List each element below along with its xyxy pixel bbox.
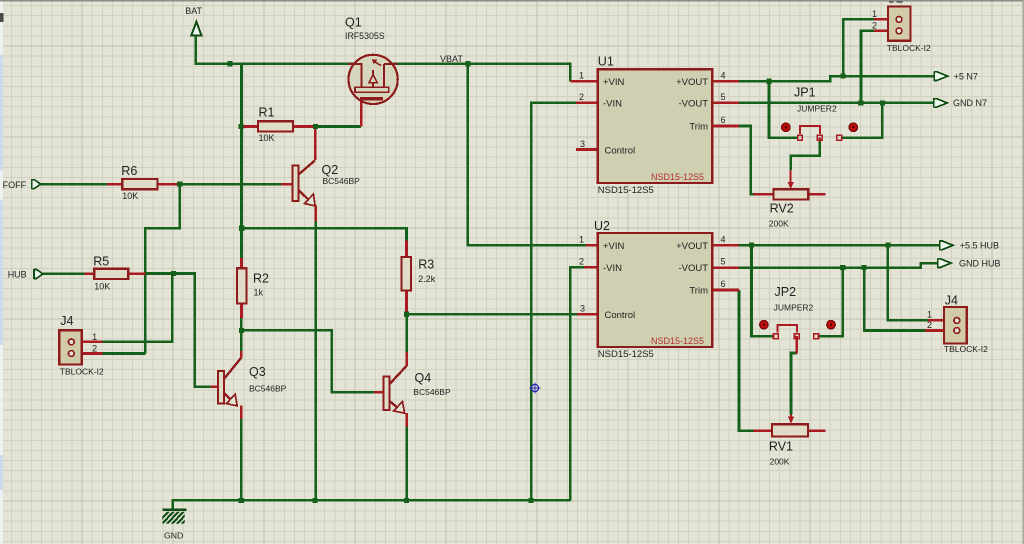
svg-text:2: 2 [872,20,877,30]
pin lead RV1 left [754,429,773,432]
jumper JP1 [782,123,858,140]
svg-text:1: 1 [579,70,584,80]
pin lead Q3 collector [240,351,243,358]
pin lead U1 pin1 [570,80,598,83]
output terminal GND HUB [938,258,952,267]
junction GND bus / Q3 emitter [239,498,244,503]
svg-text:Trim: Trim [689,122,708,133]
svg-text:R3: R3 [418,258,434,272]
wire Q1 gate/drain node to R1-Q2 junction [316,125,362,128]
svg-text:5: 5 [720,256,725,266]
svg-text:1: 1 [92,332,97,342]
wire R3 junction down to Q4 collector [405,314,408,353]
svg-text:HUB: HUB [8,270,27,280]
svg-text:Control: Control [605,310,636,321]
op-amp/converter U1 (NSD15-12S5) [598,69,713,183]
junction R6 right / FOFF branch [177,182,182,187]
wire U1 pin2 -VIN down to GND bus [531,103,576,501]
pin lead R3 top [405,241,408,257]
svg-text:Q2: Q2 [322,163,339,177]
svg-text:+VOUT: +VOUT [676,241,708,252]
connector J4 (TBLOCK-I2, left) [59,330,82,364]
wire JP1 pin1 up to +5 rail [769,81,798,137]
junction +5.5 rail / JP2 pin1 [749,242,754,247]
junction R1 right / Q1 gate / Q2 collector [313,124,318,129]
svg-text:200K: 200K [769,219,789,229]
resistor R1 [258,121,293,131]
svg-text:RV2: RV2 [770,201,794,215]
svg-text:10K: 10K [94,282,110,292]
pin lead R1 right [293,125,316,128]
wire J4R pin2 to GND HUB rail [864,268,925,331]
pin lead R6 right [158,183,180,186]
resistor R6 [122,179,157,189]
svg-text:JUMPER2: JUMPER2 [797,104,837,114]
pin lead U2 pin5 [712,266,739,269]
pin lead R2 top [240,258,243,268]
wire U2 pin2 -VIN to GND bus [570,267,584,500]
svg-text:1k: 1k [254,288,264,298]
wire R2 bottom junction dogleg to Q4 base [241,317,374,392]
svg-text:Trim: Trim [689,286,708,297]
wire JP2 pin1 up to +5.5 rail [752,245,774,336]
label J3 (cut off at top) [889,0,894,3]
svg-text:1: 1 [872,9,877,19]
wire Q3 collector to R2 bottom junction [240,330,243,352]
svg-text:3: 3 [580,303,585,313]
junction GND HUB rail / J4R pin2 [862,265,867,270]
wire JP1 pin2 to RV2 wiper [791,141,820,170]
wire Q3 emitter to GND bus [240,418,243,500]
svg-text:NSD15-12S5: NSD15-12S5 [598,349,654,360]
svg-text:2: 2 [579,256,584,266]
pin lead RV2 left [754,193,774,196]
svg-text:BC546BP: BC546BP [413,387,451,397]
svg-text:2: 2 [579,92,584,102]
svg-text:1: 1 [579,234,584,244]
junction GND N7 rail / J3 pin2 [858,100,863,105]
svg-text:Q4: Q4 [415,371,432,385]
potentiometer RV1 (200K) [772,415,808,437]
svg-text:JP1: JP1 [794,86,816,100]
svg-text:-VOUT: -VOUT [678,98,708,109]
output terminal +5.5 HUB [940,241,954,250]
svg-text:10K: 10K [259,133,275,143]
svg-text:JP2: JP2 [775,285,797,299]
svg-text:GND N7: GND N7 [953,98,987,108]
svg-text:TBLOCK-I2: TBLOCK-I2 [887,43,931,53]
wire U2 pin4 +VOUT to +5.5 HUB terminal [739,244,940,247]
node sheet origin marker (blue crosshair) [530,383,541,394]
junction BAT rail [227,61,232,66]
pin lead R5 right [128,273,145,276]
junction GND bus / Q4 emitter [404,498,409,503]
wire U1 pin6 Trim to RV2 left [739,126,754,194]
pin lead J4R pin2 [925,329,954,332]
pin lead Q1 drain [360,100,363,126]
power terminal BAT [191,22,201,36]
resistor R5 [94,269,128,279]
transistor Q3 (BC546BP) [218,358,241,406]
wire GND bus [173,500,571,509]
pin lead R3 bottom [405,290,408,311]
wire JP1 pin3 up to GND N7 rail [842,103,883,138]
svg-text:+5 N7: +5 N7 [954,72,978,82]
wire JP2 pin3 up to GND HUB rail [819,268,843,337]
svg-text:GND HUB: GND HUB [959,258,1001,268]
pin lead R2 bottom [240,304,243,319]
wire J4 pin2 short [103,352,146,355]
svg-text:2.2k: 2.2k [418,274,436,284]
svg-text:NSD15-12S5: NSD15-12S5 [651,336,704,346]
junction +5.5 rail / J4R pin1 [885,242,890,247]
transistor Q1 (P-MOSFET IRF5305S) [348,55,398,104]
wire R3 bottom junction to U2 pin3 Control [407,311,577,314]
junction GND bus / U1 -VIN [528,498,533,503]
pin lead J4L pin1 [75,341,103,344]
svg-text:+5.5 HUB: +5.5 HUB [960,241,999,251]
wire FOFF input to R6 [41,183,108,186]
pin lead Q4 collector [405,352,408,366]
svg-text:+VOUT: +VOUT [676,77,708,88]
wire FOFF branch down to J4 pin2 column [145,184,179,353]
svg-text:-VIN: -VIN [603,98,622,109]
svg-text:2: 2 [927,320,932,330]
pin lead Q2 collector [314,127,317,161]
pin lead U2 pin1 [586,244,598,247]
resistor R3 [402,257,411,291]
svg-text:10K: 10K [122,191,138,201]
wire Q4 emitter to GND bus [405,426,408,500]
screen top edge line (decorative) [0,0,1024,1]
wire BAT power rail to Q1 and VBAT node [196,36,468,64]
pin lead Q2 base [281,183,293,186]
wire U1 pin4 +VOUT to +5 N7 terminal [739,76,934,81]
pin lead Q3 emitter [240,405,243,419]
pin lead R1 left [242,125,259,128]
svg-text:BC546BP: BC546BP [249,384,287,394]
svg-text:R2: R2 [253,272,269,286]
input terminal FOFF [32,179,41,189]
wire U1 pin5 -VOUT to GND N7 terminal [739,102,934,105]
junction GND HUB rail / JP2 pin3 [840,265,845,270]
pin lead JP1 pin2 stub [818,138,821,142]
wire R1 left column from top rail to R2 top [240,64,243,258]
wire J3 pin1 down to +5 rail [843,19,874,76]
connector J4 (TBLOCK-I2, right) [944,307,967,344]
resistor R2 [237,268,247,303]
wire Q2 emitter down to GND bus [314,220,317,500]
svg-text:3: 3 [580,139,585,149]
pin lead Q4 emitter [405,413,408,427]
output terminal +5 N7 [934,71,948,80]
svg-text:J4: J4 [60,314,73,328]
pin lead U1 pin3 unconnected [576,148,598,151]
wire J4R pin1 to +5.5 rail [888,245,928,320]
svg-text:RV1: RV1 [769,439,793,453]
junction R1 column / R3 line [239,226,244,231]
pin lead U2 pin2 [584,266,598,269]
svg-text:2: 2 [92,343,97,353]
svg-text:JUMPER2: JUMPER2 [774,303,814,313]
wire R6 to Q2 base [180,183,281,186]
wire node R1R6 horizontal to R3 top [242,228,407,240]
svg-text:R1: R1 [259,106,275,120]
wire J3 pin2 down to GND N7 rail [861,31,874,103]
svg-text:4: 4 [720,234,725,244]
svg-text:6: 6 [720,279,725,289]
svg-text:BC546BP: BC546BP [323,176,361,186]
transistor Q2 (BC546BP) [293,160,316,206]
svg-text:Control: Control [605,145,636,156]
svg-text:+VIN: +VIN [603,77,625,88]
pin lead Q4 base [374,391,384,394]
junction +5 rail / J3 pin1 [841,74,846,79]
wire VBAT node down to U2 pin1 (+VIN) [468,64,586,246]
junction GND bus / Q2 emitter [313,498,318,503]
svg-text:U2: U2 [594,219,610,233]
pin lead U2 pin3 [577,313,598,316]
connector J3 (TBLOCK-I2, top right) [888,7,911,41]
junction GND N7 rail / JP1 pin3 [880,100,885,105]
junction HUB net / J4L pin1 branch [171,271,176,276]
svg-text:Q3: Q3 [249,365,266,379]
pin lead U2 pin4 [712,244,739,247]
pin lead U1 pin6 [712,125,739,128]
svg-text:J4: J4 [945,294,958,308]
junction VBAT node [465,61,470,66]
op-amp/converter U2 (NSD15-12S5) [598,233,713,347]
wire J4 pin1 to HUB net [103,274,173,342]
screen left edge strip (decorative) [0,0,3,544]
svg-text:TBLOCK-I2: TBLOCK-I2 [60,367,104,377]
wire JP2 pin2 to RV1 wiper [791,353,797,415]
pin lead J3 pin2 [874,30,895,33]
svg-text:6: 6 [720,115,725,125]
junction R3 bottom / Control line [404,312,409,317]
svg-text:U1: U1 [598,55,614,69]
input terminal HUB [34,269,43,279]
pin lead U1 pin4 [712,80,739,83]
svg-text:1: 1 [927,310,932,320]
output terminal GND N7 [934,98,948,107]
svg-text:IRF5305S: IRF5305S [345,31,385,41]
svg-text:GND: GND [164,531,183,541]
junction R2 bottom [239,328,244,333]
pin lead R6 left [107,183,122,186]
wire U2 pin6 Trim down to RV1 left [739,290,754,431]
pin lead U2 pin6 [712,289,739,292]
svg-text:+VIN: +VIN [603,241,625,252]
pin lead Q2 emitter [314,206,317,221]
svg-text:4: 4 [720,70,725,80]
svg-text:FOFF: FOFF [3,180,27,190]
pin lead RV2 right [808,193,825,196]
jumper JP2 [760,321,836,339]
pin lead R5 left [84,273,94,276]
screen right edge line (decorative) [1023,0,1024,544]
junction +5 rail / JP1 pin1 [766,79,771,84]
svg-text:BAT: BAT [185,6,202,16]
wire U2 pin5 -VOUT to GND HUB terminal [739,263,938,268]
svg-text:NSD15-12S5: NSD15-12S5 [651,172,704,182]
svg-text:Q1: Q1 [345,16,362,30]
pin lead J3 pin1 [874,18,895,21]
svg-text:-VOUT: -VOUT [678,263,708,274]
junction R1 left [238,124,243,129]
pin lead JP2 pin2 stub [796,336,799,353]
svg-text:VBAT: VBAT [440,54,463,64]
pin lead U1 pin2 [576,102,598,105]
pin lead Q3 base [211,385,218,388]
svg-text:NSD15-12S5: NSD15-12S5 [598,185,654,196]
svg-text:-VIN: -VIN [603,263,622,274]
pin lead J4R pin1 [928,319,954,322]
pin lead J4L pin2 [75,352,103,355]
wire VBAT node to U1 pin1 corner [468,64,570,82]
potentiometer RV2 (200K) [774,170,809,200]
wire HUB input to R5 [43,273,85,276]
svg-text:5: 5 [720,92,725,102]
wire HUB net R5 to Q3 base column [145,274,211,387]
svg-text:200K: 200K [770,457,790,467]
svg-text:R5: R5 [93,255,109,269]
svg-text:TBLOCK-I2: TBLOCK-I2 [944,344,988,354]
svg-text:R6: R6 [121,164,137,178]
pin lead U1 pin5 [712,102,739,105]
pin lead RV1 right [808,429,826,432]
transistor Q4 (BC546BP) [383,366,406,413]
